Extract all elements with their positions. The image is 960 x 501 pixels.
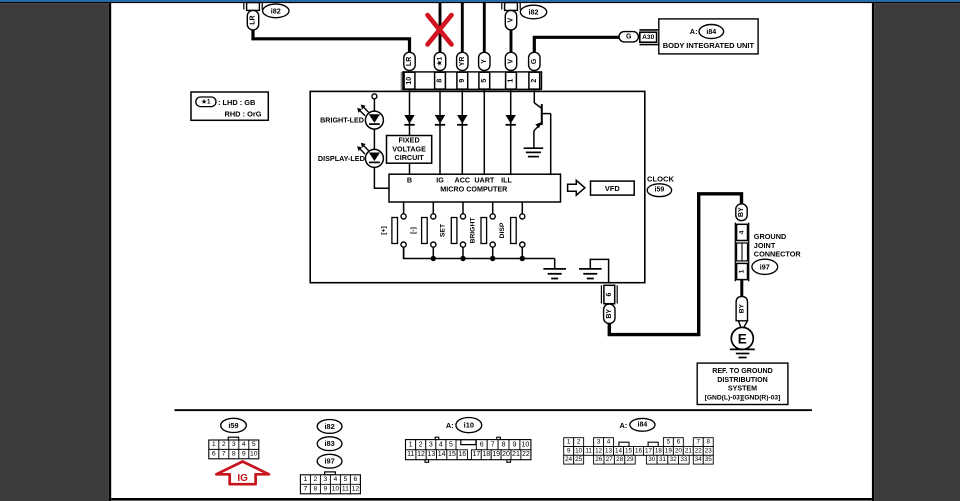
svg-text:i82: i82	[324, 422, 334, 431]
svg-text:CIRCUIT: CIRCUIT	[395, 153, 425, 162]
VFD display box	[591, 181, 635, 195]
svg-text:3: 3	[597, 439, 601, 446]
micro computer U2	[389, 174, 561, 202]
svg-text:1: 1	[739, 269, 746, 273]
connector i97 oval	[752, 259, 778, 274]
pill BY lower right	[736, 297, 747, 321]
pill BY lower left	[604, 304, 615, 323]
connector i84 row 1 cells 7-8	[693, 438, 713, 447]
svg-text:17: 17	[472, 451, 480, 458]
pill YR at pin 9	[457, 52, 468, 70]
svg-text:6: 6	[606, 292, 613, 296]
connector i84 row 1 cells 5-6	[663, 438, 683, 447]
svg-text:BY: BY	[738, 304, 745, 314]
svg-text:2: 2	[314, 476, 318, 483]
connector i10 row 1 cells 1-5	[406, 440, 456, 450]
svg-text:32: 32	[670, 456, 678, 463]
svg-text:19: 19	[665, 447, 673, 454]
svg-text:G: G	[626, 33, 632, 40]
pill *1 at pin 8	[434, 52, 445, 70]
svg-text:A:: A:	[446, 421, 454, 430]
svg-text:23: 23	[705, 447, 713, 454]
connector i84 row 3 cells 26-29	[594, 455, 636, 464]
right sidebar panel	[872, 3, 874, 501]
svg-text:BRIGHT-LED: BRIGHT-LED	[320, 116, 364, 125]
diode D3 on ACC line	[457, 115, 467, 125]
svg-text:Y: Y	[481, 59, 488, 64]
connector i82 oval right	[520, 5, 546, 19]
ground G1 stub	[554, 259, 556, 269]
clock connector strip	[403, 72, 542, 89]
svg-text:i83: i83	[324, 439, 334, 448]
svg-text:11: 11	[585, 447, 592, 454]
svg-text:10: 10	[406, 77, 413, 85]
svg-text:[+]: [+]	[380, 226, 387, 235]
diode D1 on B line	[404, 115, 414, 125]
svg-text:7: 7	[491, 441, 495, 448]
svg-text:28: 28	[616, 456, 624, 463]
svg-text:2: 2	[577, 439, 581, 446]
svg-text:i84: i84	[706, 28, 716, 36]
svg-text:31: 31	[659, 456, 667, 463]
switch common bus	[404, 247, 555, 258]
svg-text:9: 9	[567, 447, 571, 454]
svg-text:8: 8	[437, 79, 444, 83]
pill LR at pin 10	[404, 52, 415, 70]
label ground joint connector	[754, 232, 802, 259]
svg-text:IG: IG	[436, 175, 444, 184]
connector i84 row 1 cells 1-2	[564, 438, 584, 447]
svg-text:10: 10	[250, 451, 258, 458]
svg-text:DISPLAY-LED: DISPLAY-LED	[318, 154, 365, 163]
svg-text:29: 29	[626, 456, 634, 463]
svg-text:[-]: [-]	[410, 227, 417, 234]
svg-text:3: 3	[232, 441, 236, 448]
svg-text:E: E	[738, 331, 747, 346]
connector i84 row 1 cells 3-4	[594, 438, 614, 447]
pin 9	[457, 72, 468, 89]
svg-text:★1: ★1	[200, 98, 211, 105]
body integrated unit U-BIU	[659, 19, 758, 54]
connector bracket at top left	[243, 3, 245, 10]
svg-text:6: 6	[677, 439, 681, 446]
svg-text:5: 5	[667, 439, 671, 446]
junction dot	[460, 256, 465, 261]
svg-text:LR: LR	[406, 57, 413, 66]
svg-text:34: 34	[695, 456, 703, 463]
switch BRIGHT	[469, 202, 495, 259]
svg-text:13: 13	[427, 451, 435, 458]
svg-text:★1: ★1	[437, 56, 444, 67]
svg-text:4: 4	[439, 441, 443, 448]
svg-text:5: 5	[344, 476, 348, 483]
svg-text:1: 1	[567, 439, 571, 446]
svg-text:VFD: VFD	[605, 184, 620, 193]
svg-text:9: 9	[242, 451, 246, 458]
svg-text:GROUND: GROUND	[754, 232, 786, 241]
wire YR from top to pin 9	[461, 3, 464, 53]
svg-text:10: 10	[575, 447, 583, 454]
svg-text:2: 2	[419, 441, 423, 448]
bottom border line	[111, 498, 872, 501]
svg-text:8: 8	[706, 439, 710, 446]
ground symbol under E	[730, 349, 755, 357]
svg-text:UART: UART	[474, 175, 495, 184]
pill Y at pin 5	[479, 52, 490, 70]
ground G1	[543, 269, 566, 279]
svg-text:i97: i97	[760, 262, 770, 271]
svg-text:5: 5	[252, 441, 256, 448]
svg-text:4: 4	[334, 476, 338, 483]
svg-text:35: 35	[705, 456, 713, 463]
pill V upper	[505, 10, 516, 30]
ref to ground distribution note box	[697, 363, 788, 404]
svg-text:DISTRIBUTION: DISTRIBUTION	[717, 376, 767, 384]
svg-text:i59: i59	[655, 187, 665, 194]
connector A30	[640, 30, 660, 45]
svg-text:ILL: ILL	[501, 175, 512, 184]
clock connector strip shadow	[401, 72, 540, 91]
connector i84 row 3 cells 24-25	[564, 455, 584, 464]
svg-text:i84: i84	[638, 421, 648, 428]
svg-text:7: 7	[697, 439, 701, 446]
connector bracket at top middle	[501, 3, 503, 10]
svg-text:18: 18	[482, 451, 490, 458]
svg-text:10: 10	[332, 486, 340, 493]
svg-text:6: 6	[354, 476, 358, 483]
svg-text:7: 7	[304, 486, 308, 493]
pill LR upper	[247, 10, 258, 30]
svg-text:[GND(L)-03][GND(R)-03]: [GND(L)-03][GND(R)-03]	[705, 394, 781, 401]
svg-text:15: 15	[625, 447, 633, 454]
switch [+]	[380, 202, 406, 259]
svg-text:5: 5	[449, 441, 453, 448]
svg-text:V: V	[508, 59, 515, 64]
svg-text:A:: A:	[619, 421, 627, 430]
svg-text:CONNECTOR: CONNECTOR	[754, 250, 802, 259]
wire to ground terminal E	[739, 321, 748, 328]
junction dot	[520, 256, 525, 261]
svg-text:14: 14	[438, 451, 446, 458]
pill V at pin 1	[505, 52, 516, 70]
switch DISP	[499, 202, 525, 259]
wire led chain	[373, 99, 375, 111]
svg-text:4: 4	[607, 439, 611, 446]
svg-text:9: 9	[459, 79, 466, 83]
svg-text:30: 30	[648, 456, 656, 463]
pin 8	[435, 72, 446, 89]
svg-text:21: 21	[512, 451, 520, 458]
svg-text:A:: A:	[690, 27, 698, 36]
connector i97 oval bottom	[317, 454, 342, 468]
svg-text:4: 4	[739, 230, 746, 234]
svg-text:FIXED: FIXED	[399, 136, 420, 145]
svg-text:11: 11	[342, 486, 349, 493]
svg-text:ACC: ACC	[455, 175, 471, 184]
terminal circle above bright-led	[372, 94, 377, 99]
wire pin9 ACC internal	[461, 89, 463, 174]
svg-text:B: B	[407, 175, 412, 184]
diode D2 on IG line	[435, 115, 445, 125]
svg-text:1: 1	[212, 441, 216, 448]
pill BY upper right	[736, 204, 747, 221]
svg-text:9: 9	[324, 486, 328, 493]
connector i83 oval	[317, 437, 342, 451]
signal arrow to VFD	[568, 180, 585, 195]
svg-text:VOLTAGE: VOLTAGE	[392, 144, 426, 153]
svg-text:14: 14	[615, 447, 623, 454]
ground G2	[579, 269, 602, 279]
svg-text:IG: IG	[237, 473, 248, 484]
svg-text:27: 27	[606, 456, 614, 463]
svg-text:3: 3	[324, 476, 328, 483]
ground at transistor emitter	[524, 148, 544, 156]
connector i10 outline	[406, 440, 531, 460]
svg-text:12: 12	[352, 486, 360, 493]
connector i82 pin grid	[300, 475, 360, 494]
note box *1 LHD RHD wire colors	[191, 92, 268, 120]
svg-text:i82: i82	[271, 6, 281, 15]
connector i59 pin grid	[209, 440, 259, 459]
connector i82 oval bottom	[317, 420, 342, 434]
junction dot	[490, 256, 495, 261]
wire V from connector i82 to pin 1	[510, 29, 513, 53]
svg-text:16: 16	[458, 451, 466, 458]
wire pin5 UART internal	[483, 89, 485, 174]
connector i10 oval	[456, 418, 482, 433]
svg-text:6: 6	[480, 441, 484, 448]
svg-text:16: 16	[635, 447, 643, 454]
svg-text:MICRO COMPUTER: MICRO COMPUTER	[440, 184, 508, 193]
svg-text:V: V	[508, 17, 515, 22]
svg-text:22: 22	[695, 447, 703, 454]
connector i10 row 1 cells 6-10	[476, 440, 531, 450]
svg-text:i59: i59	[228, 421, 238, 430]
svg-text:REF. TO GROUND: REF. TO GROUND	[712, 367, 773, 375]
svg-text:9: 9	[512, 441, 516, 448]
svg-text:G: G	[531, 58, 538, 64]
i10 latch notch	[461, 440, 476, 445]
wire *1 from top to pin 8	[439, 3, 442, 53]
diode D4 on ILL line	[506, 115, 516, 125]
svg-text:CLOCK: CLOCK	[647, 174, 675, 183]
svg-text:15: 15	[448, 451, 456, 458]
svg-text:22: 22	[522, 451, 530, 458]
ground joint connector body	[735, 223, 748, 282]
svg-text:6: 6	[212, 451, 216, 458]
svg-text:YR: YR	[459, 57, 466, 67]
i82 latch tab	[325, 472, 336, 475]
svg-text:4: 4	[242, 441, 246, 448]
junction dot	[431, 256, 436, 261]
switch [-]	[410, 202, 436, 259]
pin 5	[479, 72, 490, 89]
svg-text:11: 11	[407, 451, 414, 458]
svg-text:10: 10	[521, 441, 529, 448]
svg-text:24: 24	[565, 456, 573, 463]
wire BY from pin 6 to ground joint connector	[609, 194, 741, 335]
clock unit box	[310, 91, 645, 282]
svg-text:8: 8	[502, 441, 506, 448]
ground G2 link to pin 6	[590, 259, 608, 282]
connector i10 row 2 cells 17-22	[471, 450, 530, 460]
connector i82 oval left	[263, 4, 289, 18]
wire Y from top to pin 5	[483, 3, 486, 53]
svg-text:20: 20	[675, 447, 683, 454]
svg-text:12: 12	[417, 451, 425, 458]
wire pin1 ILL internal	[510, 89, 512, 174]
wire pin2 to transistor	[533, 89, 535, 103]
pin 1	[506, 72, 517, 89]
left sidebar panel	[0, 3, 109, 501]
connector i59 oval bottom	[221, 418, 247, 432]
i59 latch tab	[228, 437, 238, 440]
wire G from pin 2 to connector A30	[534, 37, 619, 53]
wire pin8 IG internal	[439, 89, 441, 174]
red IG arrow	[216, 462, 269, 485]
connector i84 row 3 cells 34-35	[693, 455, 713, 464]
svg-text:3: 3	[429, 441, 433, 448]
wire pin10 B internal	[409, 89, 411, 136]
connector i84 row 2 cells 9-23	[564, 447, 714, 456]
svg-text:SYSTEM: SYSTEM	[728, 385, 757, 393]
svg-text:20: 20	[502, 451, 510, 458]
svg-text:33: 33	[680, 456, 688, 463]
svg-text:BRIGHT: BRIGHT	[469, 217, 476, 244]
svg-text:A30: A30	[642, 34, 654, 41]
BRIGHT-LED	[357, 105, 383, 130]
svg-text:LR: LR	[250, 15, 257, 24]
pill G horizontal	[619, 32, 638, 42]
svg-text:7: 7	[222, 451, 226, 458]
switch SET	[440, 202, 466, 259]
svg-text:1: 1	[409, 441, 413, 448]
connector i84 row 3 cells 30-33	[646, 455, 689, 464]
svg-text:i82: i82	[529, 8, 539, 17]
connector i59 oval top	[647, 184, 671, 197]
separator rule	[175, 409, 812, 411]
svg-text:: LHD : GB: : LHD : GB	[218, 98, 255, 107]
svg-text:5: 5	[481, 79, 488, 83]
svg-text:i97: i97	[324, 457, 334, 466]
i10 tabs	[435, 437, 439, 440]
wire below ground joint connector	[740, 280, 743, 297]
svg-text:19: 19	[492, 451, 500, 458]
pin 10	[404, 72, 415, 89]
pill G at pin 2	[529, 52, 540, 70]
svg-text:BY: BY	[738, 207, 745, 217]
bracket at pin 6	[600, 285, 602, 303]
transistor Q1	[534, 103, 551, 174]
svg-text:i10: i10	[464, 421, 474, 430]
wire LR from connector i82 to pin 10	[253, 29, 410, 53]
svg-text:2: 2	[222, 441, 226, 448]
svg-text:18: 18	[655, 447, 663, 454]
pin 6	[604, 285, 615, 303]
top blue edge bar	[0, 0, 960, 2]
svg-text:BODY INTEGRATED UNIT: BODY INTEGRATED UNIT	[663, 41, 755, 50]
svg-text:17: 17	[645, 447, 653, 454]
svg-text:21: 21	[685, 447, 693, 454]
svg-text:12: 12	[595, 447, 603, 454]
ground terminal E	[731, 327, 753, 349]
svg-text:1: 1	[304, 476, 308, 483]
connector i84 oval	[630, 418, 655, 431]
red X cross-out mark on wire *1	[428, 15, 452, 45]
svg-text:13: 13	[605, 447, 613, 454]
DISPLAY-LED	[357, 143, 383, 168]
svg-text:BY: BY	[606, 309, 613, 319]
fixed voltage circuit box	[387, 136, 432, 164]
i84 latch tabs	[619, 442, 629, 446]
svg-text:2: 2	[531, 79, 538, 83]
connector i10 row 2 cells 11-16	[406, 450, 468, 460]
svg-text:25: 25	[575, 456, 583, 463]
svg-text:8: 8	[232, 451, 236, 458]
pin 2	[529, 72, 540, 89]
svg-text:26: 26	[595, 456, 603, 463]
svg-text:8: 8	[314, 486, 318, 493]
svg-text:1: 1	[508, 79, 515, 83]
svg-text:SET: SET	[440, 223, 447, 237]
svg-text:RHD : OrG: RHD : OrG	[225, 110, 262, 119]
svg-text:DISP: DISP	[499, 222, 506, 238]
